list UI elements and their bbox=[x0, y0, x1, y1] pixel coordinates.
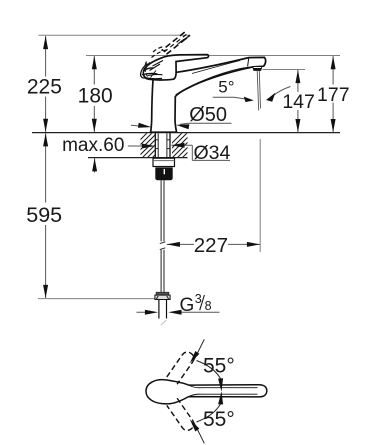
svg-text:5°: 5° bbox=[218, 78, 234, 97]
svg-text:G: G bbox=[180, 295, 195, 316]
top view: handle plan solid bbox=[146, 380, 267, 404]
svg-text:8: 8 bbox=[205, 299, 212, 313]
227 reference vertical line bbox=[259, 139, 261, 252]
dimension max.60 lower arrow bbox=[94, 158, 96, 172]
svg-text:max.60: max.60 bbox=[62, 135, 124, 156]
faucet locknut below counter bbox=[153, 158, 175, 166]
dimension 595 line bbox=[45, 133, 47, 298]
dimension Ø34 leader bbox=[172, 145, 231, 160]
handle plan inner lines bbox=[189, 385, 258, 397]
faucet body and spout bbox=[151, 57, 266, 132]
counter deck top line bbox=[32, 132, 340, 134]
svg-text:225: 225 bbox=[27, 75, 62, 98]
55 lower far arrowhead bbox=[188, 418, 200, 432]
svg-text:227: 227 bbox=[194, 234, 228, 257]
counter deck bottom line bbox=[88, 157, 188, 159]
svg-text:55°: 55° bbox=[203, 355, 235, 378]
connection pipe G3/8 bbox=[159, 300, 167, 319]
hose break symbol bbox=[160, 242, 166, 250]
5 degrees underline leader bbox=[213, 87, 291, 100]
lever handle raised dashed bbox=[162, 32, 191, 54]
flexible hose upper part bbox=[161, 180, 164, 241]
lever handle solid bbox=[143, 55, 208, 80]
spout head joint line bbox=[248, 58, 249, 67]
55 upper arc bbox=[197, 361, 221, 379]
dimension 225 line bbox=[45, 36, 47, 132]
pipe cut mark bbox=[161, 320, 166, 325]
svg-text:55°: 55° bbox=[203, 408, 235, 431]
55 lower arc bbox=[197, 404, 221, 422]
dimension Ø50 label bbox=[131, 123, 232, 126]
svg-text:3: 3 bbox=[195, 292, 202, 306]
spout top highlight line bbox=[192, 61, 240, 74]
svg-text:180: 180 bbox=[78, 84, 113, 107]
water stream lines bbox=[257, 71, 259, 111]
55 lower radial tick bbox=[194, 422, 205, 443]
max.60 leader arrow bbox=[128, 145, 150, 147]
faucet threaded tail black block bbox=[155, 167, 172, 180]
55 lower near arrowhead bbox=[220, 401, 222, 404]
dashed lever tip strokes bbox=[182, 34, 191, 40]
dimension 177 line bbox=[332, 56, 334, 132]
dimension 227 bbox=[167, 243, 260, 245]
svg-text:Ø34: Ø34 bbox=[194, 142, 231, 164]
extension line 147 top bbox=[263, 69, 306, 71]
top view: handle rotated up dashed bbox=[167, 350, 196, 384]
faucet shank through counter bbox=[155, 133, 170, 158]
flexible hose lower part bbox=[161, 250, 164, 293]
svg-text:177: 177 bbox=[317, 84, 350, 106]
55 upper radial tick bbox=[194, 339, 205, 360]
dimension 147 line bbox=[297, 70, 299, 132]
svg-text:Ø50: Ø50 bbox=[189, 104, 227, 126]
dimension 180 line bbox=[93, 56, 95, 132]
top view: handle rotated down dashed bbox=[167, 398, 196, 432]
extension line 180/177 top bbox=[86, 55, 340, 57]
svg-text:595: 595 bbox=[26, 203, 62, 227]
595 bottom reference line bbox=[38, 298, 155, 300]
55 upper near arrowhead bbox=[220, 379, 222, 382]
dimension G3/8 arrows bbox=[137, 311, 220, 313]
aerator bbox=[253, 67, 262, 69]
extension line 225 top bbox=[39, 34, 191, 36]
counter hatching left block bbox=[130, 115, 165, 190]
lever front detail scribbles bbox=[141, 61, 163, 79]
spout inner wall line bbox=[176, 67, 252, 95]
hose end fitting bbox=[156, 292, 169, 295]
counter hatching right block bbox=[165, 115, 200, 190]
55 upper far arrowhead bbox=[188, 351, 200, 365]
svg-text:147: 147 bbox=[282, 91, 315, 113]
